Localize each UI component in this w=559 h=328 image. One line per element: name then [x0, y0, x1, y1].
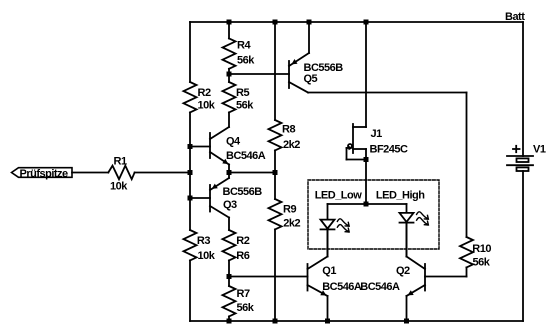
svg-text:10k: 10k [110, 181, 128, 193]
svg-text:Q4: Q4 [226, 136, 241, 148]
svg-text:Prüfspitze: Prüfspitze [20, 168, 69, 180]
svg-text:R6: R6 [236, 250, 249, 262]
svg-text:56k: 56k [237, 55, 255, 67]
svg-text:BF245C: BF245C [370, 143, 409, 155]
svg-text:Batt: Batt [505, 11, 525, 23]
svg-text:Q5: Q5 [304, 73, 318, 85]
svg-text:R9: R9 [283, 203, 296, 215]
svg-text:LED_High: LED_High [376, 189, 425, 201]
svg-text:J1: J1 [371, 128, 383, 140]
svg-text:Q1: Q1 [322, 265, 336, 277]
svg-text:BC556B: BC556B [223, 186, 263, 198]
svg-text:BC556B: BC556B [304, 62, 344, 74]
svg-text:BC546A: BC546A [322, 281, 362, 293]
svg-text:R4: R4 [237, 40, 251, 52]
svg-text:R3: R3 [197, 235, 210, 247]
svg-text:10k: 10k [198, 100, 216, 112]
svg-text:56k: 56k [473, 257, 491, 269]
svg-text:R1: R1 [114, 156, 127, 168]
svg-text:R7: R7 [237, 288, 250, 300]
svg-text:2k2: 2k2 [283, 218, 300, 230]
svg-text:BC546A: BC546A [226, 150, 266, 162]
svg-text:V1: V1 [533, 144, 546, 156]
svg-text:2k2: 2k2 [283, 139, 300, 151]
svg-text:R2: R2 [236, 235, 249, 247]
svg-text:56k: 56k [237, 302, 255, 314]
svg-text:LED_Low: LED_Low [315, 189, 363, 201]
svg-text:R8: R8 [282, 123, 295, 135]
svg-text:56k: 56k [236, 100, 254, 112]
svg-text:R10: R10 [472, 243, 491, 255]
svg-text:Q3: Q3 [223, 199, 237, 211]
svg-text:R2: R2 [198, 87, 211, 99]
svg-text:R5: R5 [236, 87, 249, 99]
svg-text:10k: 10k [198, 250, 216, 262]
svg-text:BC546A: BC546A [360, 281, 400, 293]
svg-text:Q2: Q2 [396, 265, 410, 277]
